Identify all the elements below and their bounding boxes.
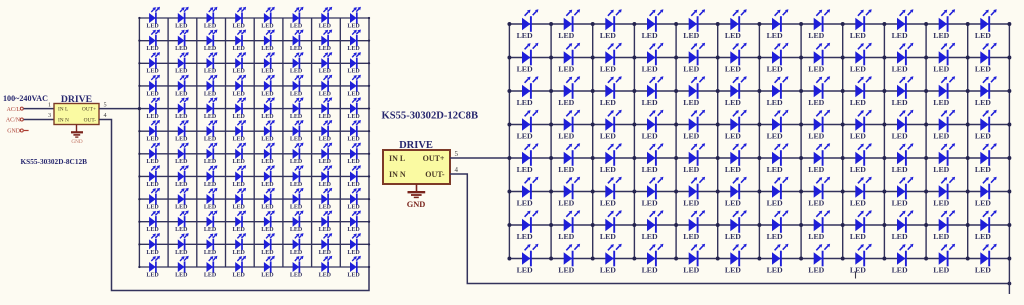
wire row 3 (right matrix) xyxy=(509,90,1009,92)
LED left matrix r4c3 xyxy=(204,75,218,98)
LED right matrix r3c4 xyxy=(642,76,664,107)
wire column rail L8 (left matrix) xyxy=(339,18,341,267)
LED right matrix r5c8 xyxy=(808,143,830,174)
LED left matrix r6c1 xyxy=(146,120,160,143)
junction right-rail row 12 (left matrix) xyxy=(368,266,370,268)
junction c11r8 (right matrix) xyxy=(924,257,928,261)
LED left matrix r3c8 xyxy=(347,52,361,75)
svg-text:OUT-: OUT- xyxy=(84,118,97,124)
LED left matrix r2c8 xyxy=(347,29,361,52)
wire column rail R13 (right matrix) xyxy=(1008,24,1010,294)
LED right matrix r4c5 xyxy=(683,110,705,141)
LED left matrix r9c5 xyxy=(261,188,275,211)
LED left matrix r7c3 xyxy=(204,143,218,166)
wire row 5 (right matrix) xyxy=(509,157,1009,159)
LED right matrix r1c6 xyxy=(725,9,747,40)
LED right matrix r8c1 xyxy=(517,244,539,275)
LED left matrix r2c3 xyxy=(204,29,218,52)
wire row 12 (left matrix) xyxy=(139,266,369,268)
wire column rail R2 (right matrix) xyxy=(550,24,552,259)
junction c10r6 (right matrix) xyxy=(882,190,886,194)
junction c9r8 (right matrix) xyxy=(841,257,845,261)
junction c4r2 (right matrix) xyxy=(632,56,636,60)
svg-text:OUT+: OUT+ xyxy=(423,154,445,163)
LED left matrix r3c7 xyxy=(319,52,333,75)
LED right matrix r3c5 xyxy=(683,76,705,107)
LED right matrix r4c11 xyxy=(933,110,955,141)
LED left matrix r8c1 xyxy=(146,165,160,188)
junction c13r6 (right matrix) xyxy=(1007,190,1011,194)
LED right matrix r4c1 xyxy=(517,110,539,141)
junction c1r2 (right matrix) xyxy=(507,56,511,60)
junction c12r1 (right matrix) xyxy=(966,22,970,26)
LED right matrix r6c2 xyxy=(558,177,580,208)
junction c9r6 (right matrix) xyxy=(841,190,845,194)
wire column rail L4 (left matrix) xyxy=(225,18,227,267)
wire row 6 (right matrix) xyxy=(509,191,1009,193)
LED left matrix r7c6 xyxy=(290,143,304,166)
junction c13r5 (right matrix) xyxy=(1007,156,1011,160)
LED right matrix r4c2 xyxy=(558,110,580,141)
svg-text:IN L: IN L xyxy=(58,107,68,113)
junction c1r8 (right matrix) xyxy=(507,257,511,261)
wire column rail R7 (right matrix) xyxy=(758,24,760,259)
LED left matrix r12c8 xyxy=(347,256,361,279)
LED right matrix r3c2 xyxy=(558,76,580,107)
junction c5r3 (right matrix) xyxy=(674,89,678,93)
LED right matrix r3c11 xyxy=(933,76,955,107)
junction right-rail row 3 (left matrix) xyxy=(368,62,370,64)
LED right matrix r7c4 xyxy=(642,210,664,241)
junction c13r4 (right matrix) xyxy=(1007,123,1011,127)
LED left matrix r6c4 xyxy=(233,120,247,143)
junction right-rail row 1 (left matrix) xyxy=(368,17,370,19)
junction c13r1 (right matrix) xyxy=(1007,22,1011,26)
LED right matrix r8c12 xyxy=(975,244,997,275)
LED right matrix r7c9 xyxy=(850,210,872,241)
LED right matrix r6c12 xyxy=(975,177,997,208)
LED left matrix r10c5 xyxy=(261,211,275,234)
junction c12r3 (right matrix) xyxy=(966,89,970,93)
junction left-rail row 9 (left matrix) xyxy=(138,198,140,200)
junction c4r4 (right matrix) xyxy=(632,123,636,127)
LED left matrix r8c4 xyxy=(233,165,247,188)
wire row 4 (right matrix) xyxy=(509,124,1009,126)
wire OUT- down xyxy=(99,120,369,291)
junction c11r4 (right matrix) xyxy=(924,123,928,127)
LED right matrix r7c6 xyxy=(725,210,747,241)
LED left matrix r8c8 xyxy=(347,165,361,188)
junction c1r3 (right matrix) xyxy=(507,89,511,93)
junction c2r3 (right matrix) xyxy=(549,89,553,93)
wire column rail R3 (right matrix) xyxy=(592,24,594,259)
LED left matrix r4c8 xyxy=(347,75,361,98)
svg-text:5: 5 xyxy=(104,101,107,108)
LED right matrix r2c12 xyxy=(975,43,997,74)
wire column rail R6 (right matrix) xyxy=(717,24,719,259)
junction c3r4 (right matrix) xyxy=(591,123,595,127)
LED right matrix r1c10 xyxy=(892,9,914,40)
LED right matrix r1c3 xyxy=(600,9,622,40)
junction c2r5 (right matrix) xyxy=(549,156,553,160)
junction c7r6 (right matrix) xyxy=(757,190,761,194)
LED right matrix r8c11 xyxy=(933,244,955,275)
wire column rail L6 (left matrix) xyxy=(282,18,284,267)
wire row 1 (left matrix) xyxy=(139,17,369,19)
junction c10r5 (right matrix) xyxy=(882,156,886,160)
LED left matrix r4c2 xyxy=(175,75,189,98)
junction left-rail row 6 (left matrix) xyxy=(138,130,140,132)
junction c7r4 (right matrix) xyxy=(757,123,761,127)
LED right matrix r7c11 xyxy=(933,210,955,241)
junction c4r5 (right matrix) xyxy=(632,156,636,160)
LED right matrix r3c3 xyxy=(600,76,622,107)
junction c3r1 (right matrix) xyxy=(591,22,595,26)
svg-text:100~240VAC: 100~240VAC xyxy=(3,94,48,103)
LED left matrix r9c1 xyxy=(146,188,160,211)
LED left matrix r8c5 xyxy=(261,165,275,188)
junction c6r2 (right matrix) xyxy=(716,56,720,60)
LED right matrix r3c9 xyxy=(850,76,872,107)
junction c11r2 (right matrix) xyxy=(924,56,928,60)
junction right-rail row 11 (left matrix) xyxy=(368,243,370,245)
junction c6r6 (right matrix) xyxy=(716,190,720,194)
wire column rail R10 (right matrix) xyxy=(883,24,885,259)
junction c1r7 (right matrix) xyxy=(507,223,511,227)
wire column rail R12 (right matrix) xyxy=(967,24,969,259)
wire column rail L3 (left matrix) xyxy=(196,18,198,267)
LED left matrix r10c6 xyxy=(290,211,304,234)
LED right matrix r2c10 xyxy=(892,43,914,74)
LED left matrix r3c6 xyxy=(290,52,304,75)
LED right matrix r6c5 xyxy=(683,177,705,208)
LED right matrix r2c2 xyxy=(558,43,580,74)
junction c9r5 (right matrix) xyxy=(841,156,845,160)
wire row 10 (left matrix) xyxy=(139,221,369,223)
junction c12r6 (right matrix) xyxy=(966,190,970,194)
LED left matrix r6c8 xyxy=(347,120,361,143)
junction c4r7 (right matrix) xyxy=(632,223,636,227)
junction c6r8 (right matrix) xyxy=(716,257,720,261)
junction c9r3 (right matrix) xyxy=(841,89,845,93)
wire column rail R8 (right matrix) xyxy=(800,24,802,259)
LED left matrix r8c7 xyxy=(319,165,333,188)
LED left matrix r5c5 xyxy=(261,97,275,120)
wire row 8 (left matrix) xyxy=(139,175,369,177)
wire row 2 (right matrix) xyxy=(509,57,1009,59)
junction c1r1 (right matrix) xyxy=(507,22,511,26)
LED left matrix r2c2 xyxy=(175,29,189,52)
LED left matrix r12c7 xyxy=(319,256,333,279)
junction c1r6 (right matrix) xyxy=(507,190,511,194)
LED left matrix r11c1 xyxy=(146,233,160,256)
LED right matrix r5c3 xyxy=(600,143,622,174)
LED left matrix r6c3 xyxy=(204,120,218,143)
LED left matrix r3c5 xyxy=(261,52,275,75)
svg-text:GND: GND xyxy=(71,139,82,145)
junction left-rail row 11 (left matrix) xyxy=(138,243,140,245)
wire row 3 (left matrix) xyxy=(139,62,369,64)
LED right matrix r7c2 xyxy=(558,210,580,241)
LED left matrix r11c7 xyxy=(319,233,333,256)
driver U1 DRIVE box xyxy=(54,104,99,125)
LED right matrix r6c6 xyxy=(725,177,747,208)
LED right matrix r2c9 xyxy=(850,43,872,74)
junction c3r5 (right matrix) xyxy=(591,156,595,160)
junction right-rail row 2 (left matrix) xyxy=(368,39,370,41)
LED right matrix r7c12 xyxy=(975,210,997,241)
wire row 7 (left matrix) xyxy=(139,153,369,155)
junction left-rail row 5 (left matrix) xyxy=(138,107,140,109)
junction c9r7 (right matrix) xyxy=(841,223,845,227)
LED left matrix r6c5 xyxy=(261,120,275,143)
junction c7r8 (right matrix) xyxy=(757,257,761,261)
LED right matrix r7c10 xyxy=(892,210,914,241)
junction c7r1 (right matrix) xyxy=(757,22,761,26)
junction right-rail row 8 (left matrix) xyxy=(368,175,370,177)
LED left matrix r1c4 xyxy=(233,7,247,30)
junction c13r2 (right matrix) xyxy=(1007,56,1011,60)
junction c9r2 (right matrix) xyxy=(841,56,845,60)
wire column rail L9 (left matrix) xyxy=(368,18,370,267)
LED left matrix r10c1 xyxy=(146,211,160,234)
wire column rail R4 (right matrix) xyxy=(633,24,635,259)
LED left matrix r4c1 xyxy=(146,75,160,98)
svg-text:DRIVE: DRIVE xyxy=(61,94,92,105)
junction left-rail row 10 (left matrix) xyxy=(138,221,140,223)
junction c11r1 (right matrix) xyxy=(924,22,928,26)
LED left matrix r7c2 xyxy=(175,143,189,166)
junction right-rail row 5 (left matrix) xyxy=(368,107,370,109)
LED left matrix r10c8 xyxy=(347,211,361,234)
junction right-rail row 10 (left matrix) xyxy=(368,221,370,223)
LED left matrix r9c7 xyxy=(319,188,333,211)
LED left matrix r5c7 xyxy=(319,97,333,120)
LED left matrix r11c2 xyxy=(175,233,189,256)
LED left matrix r1c5 xyxy=(261,7,275,30)
LED left matrix r5c8 xyxy=(347,97,361,120)
LED left matrix r7c8 xyxy=(347,143,361,166)
junction c6r7 (right matrix) xyxy=(716,223,720,227)
junction right-rail row 4 (left matrix) xyxy=(368,85,370,87)
LED left matrix r8c2 xyxy=(175,165,189,188)
LED right matrix r5c1 xyxy=(517,143,539,174)
junction dot xyxy=(138,107,141,110)
junction c11r7 (right matrix) xyxy=(924,223,928,227)
LED left matrix r11c5 xyxy=(261,233,275,256)
wire row 8 (right matrix) xyxy=(509,258,1009,260)
LED left matrix r9c8 xyxy=(347,188,361,211)
LED right matrix r1c9 xyxy=(850,9,872,40)
LED right matrix r8c6 xyxy=(725,244,747,275)
junction c2r8 (right matrix) xyxy=(549,257,553,261)
wire AC/L to IN L xyxy=(24,108,54,110)
junction c8r8 (right matrix) xyxy=(799,257,803,261)
LED right matrix r3c8 xyxy=(808,76,830,107)
junction c3r3 (right matrix) xyxy=(591,89,595,93)
LED right matrix r3c7 xyxy=(767,76,789,107)
LED right matrix r2c5 xyxy=(683,43,705,74)
LED right matrix r5c6 xyxy=(725,143,747,174)
junction c5r1 (right matrix) xyxy=(674,22,678,26)
LED left matrix r2c1 xyxy=(146,29,160,52)
LED left matrix r5c2 xyxy=(175,97,189,120)
svg-text:GND: GND xyxy=(7,129,21,135)
LED right matrix r1c8 xyxy=(808,9,830,40)
svg-text:GND: GND xyxy=(407,200,426,209)
LED right matrix r7c3 xyxy=(600,210,622,241)
svg-text:OUT-: OUT- xyxy=(425,170,445,179)
junction c8r2 (right matrix) xyxy=(799,56,803,60)
wire column rail R9 (right matrix) xyxy=(842,24,844,259)
junction c8r1 (right matrix) xyxy=(799,22,803,26)
junction c5r6 (right matrix) xyxy=(674,190,678,194)
LED left matrix r4c6 xyxy=(290,75,304,98)
junction left-rail row 12 (left matrix) xyxy=(138,266,140,268)
wire AC/N to IN N xyxy=(24,119,54,121)
LED right matrix r4c7 xyxy=(767,110,789,141)
svg-text:IN N: IN N xyxy=(58,118,69,124)
LED right matrix r1c7 xyxy=(767,9,789,40)
LED right matrix r7c7 xyxy=(767,210,789,241)
junction c11r5 (right matrix) xyxy=(924,156,928,160)
junction c7r7 (right matrix) xyxy=(757,223,761,227)
LED left matrix r1c3 xyxy=(204,7,218,30)
junction c5r7 (right matrix) xyxy=(674,223,678,227)
junction c12r8 (right matrix) xyxy=(966,257,970,261)
LED right matrix r4c10 xyxy=(892,110,914,141)
LED right matrix r4c9 xyxy=(850,110,872,141)
LED left matrix r12c5 xyxy=(261,256,275,279)
junction c13r8 (right matrix) xyxy=(1007,257,1011,261)
ground symbol right driver xyxy=(416,184,418,192)
junction c13r7 (right matrix) xyxy=(1007,223,1011,227)
LED right matrix r2c8 xyxy=(808,43,830,74)
LED right matrix r5c5 xyxy=(683,143,705,174)
LED left matrix r1c1 xyxy=(146,7,160,30)
LED right matrix r6c9 xyxy=(850,177,872,208)
wire row 6 (left matrix) xyxy=(139,130,369,132)
LED left matrix r1c6 xyxy=(290,7,304,30)
junction left-rail row 7 (left matrix) xyxy=(138,153,140,155)
LED right matrix r3c1 xyxy=(517,76,539,107)
svg-text:3: 3 xyxy=(48,112,51,119)
ground symbol left driver xyxy=(76,125,78,133)
LED left matrix r11c3 xyxy=(204,233,218,256)
LED left matrix r7c4 xyxy=(233,143,247,166)
LED left matrix r1c7 xyxy=(319,7,333,30)
LED left matrix r3c2 xyxy=(175,52,189,75)
LED right matrix r6c7 xyxy=(767,177,789,208)
LED right matrix r7c5 xyxy=(683,210,705,241)
wire column rail R11 (right matrix) xyxy=(925,24,927,259)
LED right matrix r8c3 xyxy=(600,244,622,275)
LED right matrix r6c3 xyxy=(600,177,622,208)
wire OUT+ to left matrix xyxy=(99,108,139,110)
svg-text:OUT+: OUT+ xyxy=(82,107,96,113)
LED left matrix r6c2 xyxy=(175,120,189,143)
LED right matrix r6c10 xyxy=(892,177,914,208)
LED left matrix r10c3 xyxy=(204,211,218,234)
svg-text:DRIVE: DRIVE xyxy=(399,140,433,151)
junction c9r1 (right matrix) xyxy=(841,22,845,26)
junction c2r4 (right matrix) xyxy=(549,123,553,127)
LED left matrix r3c3 xyxy=(204,52,218,75)
LED right matrix r2c7 xyxy=(767,43,789,74)
LED left matrix r11c4 xyxy=(233,233,247,256)
junction left-rail row 1 (left matrix) xyxy=(138,17,140,19)
junction c12r7 (right matrix) xyxy=(966,223,970,227)
LED right matrix r1c12 xyxy=(975,9,997,40)
LED left matrix r4c5 xyxy=(261,75,275,98)
LED left matrix r11c6 xyxy=(290,233,304,256)
LED left matrix r5c4 xyxy=(233,97,247,120)
LED right matrix r7c1 xyxy=(517,210,539,241)
LED right matrix r3c10 xyxy=(892,76,914,107)
junction c6r3 (right matrix) xyxy=(716,89,720,93)
LED left matrix r3c4 xyxy=(233,52,247,75)
junction c11r6 (right matrix) xyxy=(924,190,928,194)
LED left matrix r8c6 xyxy=(290,165,304,188)
svg-text:IN N: IN N xyxy=(389,170,406,179)
wire row 7 (right matrix) xyxy=(509,224,1009,226)
LED right matrix r8c4 xyxy=(642,244,664,275)
junction c7r5 (right matrix) xyxy=(757,156,761,160)
svg-text:KS55-30302D-8C12B: KS55-30302D-8C12B xyxy=(21,157,88,166)
junction c11r3 (right matrix) xyxy=(924,89,928,93)
LED left matrix r2c7 xyxy=(319,29,333,52)
LED right matrix r4c8 xyxy=(808,110,830,141)
junction right-rail row 7 (left matrix) xyxy=(368,153,370,155)
stray wire stub xyxy=(855,272,857,279)
junction c4r6 (right matrix) xyxy=(632,190,636,194)
junction c6r4 (right matrix) xyxy=(716,123,720,127)
svg-text:4: 4 xyxy=(455,166,459,174)
junction c10r3 (right matrix) xyxy=(882,89,886,93)
LED left matrix r9c2 xyxy=(175,188,189,211)
LED left matrix r7c1 xyxy=(146,143,160,166)
junction c5r8 (right matrix) xyxy=(674,257,678,261)
svg-text:4: 4 xyxy=(104,112,107,119)
LED right matrix r6c11 xyxy=(933,177,955,208)
junction c4r3 (right matrix) xyxy=(632,89,636,93)
junction c1r5 (right matrix) xyxy=(507,156,511,160)
LED left matrix r4c4 xyxy=(233,75,247,98)
LED left matrix r6c7 xyxy=(319,120,333,143)
LED left matrix r12c6 xyxy=(290,256,304,279)
junction right-rail row 6 (left matrix) xyxy=(368,130,370,132)
LED left matrix r2c4 xyxy=(233,29,247,52)
wire column rail L7 (left matrix) xyxy=(311,18,313,267)
LED left matrix r10c2 xyxy=(175,211,189,234)
wire OUT- down and along bottom xyxy=(450,174,1009,284)
LED right matrix r2c1 xyxy=(517,43,539,74)
LED right matrix r8c5 xyxy=(683,244,705,275)
LED left matrix r12c2 xyxy=(175,256,189,279)
LED left matrix r12c1 xyxy=(146,256,160,279)
LED right matrix r4c12 xyxy=(975,110,997,141)
LED right matrix r2c4 xyxy=(642,43,664,74)
LED left matrix r2c6 xyxy=(290,29,304,52)
driver U2 DRIVE box xyxy=(383,150,450,184)
junction dot bottom right xyxy=(1008,282,1012,286)
LED left matrix r5c1 xyxy=(146,97,160,120)
LED left matrix r9c4 xyxy=(233,188,247,211)
svg-text:1: 1 xyxy=(48,101,51,108)
junction c8r5 (right matrix) xyxy=(799,156,803,160)
junction c6r5 (right matrix) xyxy=(716,156,720,160)
junction c2r6 (right matrix) xyxy=(549,190,553,194)
